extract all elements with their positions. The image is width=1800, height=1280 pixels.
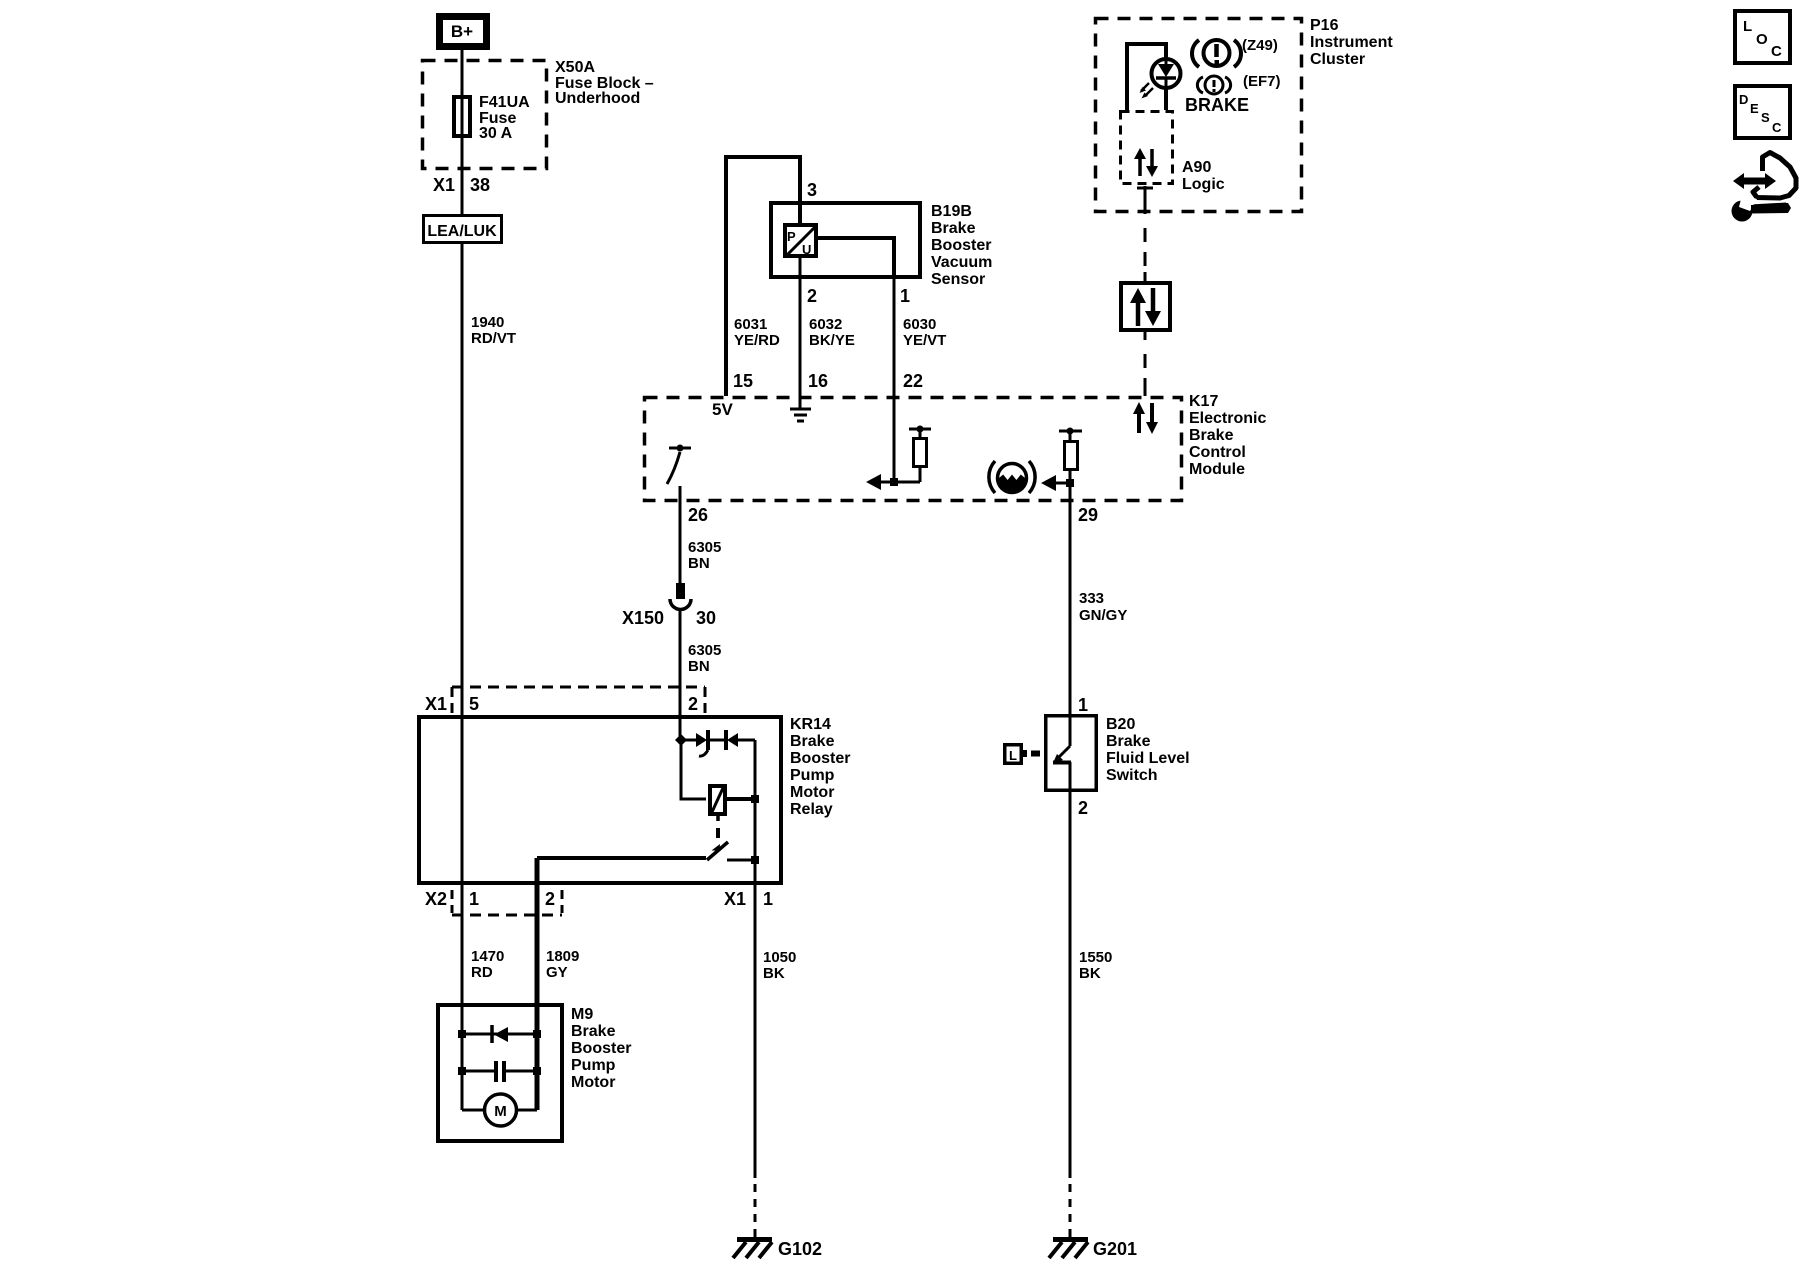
- wire label 6032 BK/YE: [809, 316, 855, 349]
- svg-text:Brake: Brake: [1106, 733, 1151, 750]
- label F41UA Fuse 30 A: [479, 94, 530, 142]
- A90 logic arrows: [1134, 148, 1158, 177]
- svg-text:15: 15: [733, 371, 753, 391]
- relay switch lever: [707, 842, 728, 860]
- svg-text:2: 2: [545, 889, 555, 909]
- wire label 6305 BN (upper): [688, 539, 721, 572]
- svg-text:16: 16: [808, 371, 828, 391]
- svg-text:Control: Control: [1189, 444, 1246, 461]
- svg-text:X1: X1: [724, 889, 746, 909]
- wire fuse to LEA/LUK: [461, 139, 464, 215]
- svg-text:Booster: Booster: [571, 1040, 631, 1057]
- svg-text:X1: X1: [425, 694, 447, 714]
- B20 switch lever: [1053, 746, 1071, 763]
- svg-text:5: 5: [469, 694, 479, 714]
- svg-text:1: 1: [763, 889, 773, 909]
- connector row X1 above KR14: [452, 687, 705, 713]
- svg-text:Fluid Level: Fluid Level: [1106, 750, 1190, 767]
- DESC icon: [1735, 86, 1790, 138]
- label B20 Brake Fluid Level Switch: [1106, 716, 1190, 784]
- svg-text:BRAKE: BRAKE: [1185, 95, 1249, 115]
- svg-text:Brake: Brake: [571, 1023, 616, 1040]
- svg-text:333: 333: [1079, 590, 1104, 607]
- wire 1050 BK to ground: [754, 885, 757, 1178]
- svg-text:B20: B20: [1106, 716, 1135, 733]
- wire through fuse: [461, 95, 464, 139]
- label X50A Fuse Block Underhood: [555, 59, 654, 107]
- svg-text:X1: X1: [433, 175, 455, 195]
- svg-text:O: O: [1756, 31, 1768, 48]
- svg-text:Brake: Brake: [931, 220, 976, 237]
- inline connector X150: [670, 583, 691, 610]
- internal pull-up resistor pin 22: [866, 396, 931, 490]
- relay switch contacts: [537, 856, 706, 860]
- svg-text:E: E: [1750, 101, 1759, 116]
- svg-text:D: D: [1739, 92, 1748, 107]
- sensor B19B box: [771, 203, 920, 277]
- wire B+ to fuse block: [461, 50, 464, 95]
- connector LEA/LUK: [424, 216, 502, 243]
- svg-text:2: 2: [807, 286, 817, 306]
- wire 333 GN/GY: [1069, 502, 1072, 746]
- wire sensor pin 3: [798, 155, 802, 223]
- wire label 6030 YE/VT: [903, 316, 946, 349]
- svg-text:Cluster: Cluster: [1310, 51, 1365, 68]
- svg-text:YE/RD: YE/RD: [734, 332, 780, 349]
- svg-text:RD/VT: RD/VT: [471, 330, 516, 347]
- serial data link symbol box: [1121, 283, 1170, 330]
- battery feed B+: [440, 17, 487, 47]
- switch B20 box: [1046, 716, 1097, 791]
- label B19B Brake Booster Vacuum Sensor: [931, 203, 992, 288]
- svg-text:26: 26: [688, 505, 708, 525]
- svg-text:GY: GY: [546, 964, 568, 981]
- svg-text:29: 29: [1078, 505, 1098, 525]
- svg-text:U: U: [802, 242, 811, 257]
- svg-text:Pump: Pump: [571, 1057, 616, 1074]
- relay actuator dashed link: [716, 816, 720, 821]
- wire label 1809 GY: [546, 948, 579, 981]
- connector pins X1 38: [433, 175, 490, 195]
- internal serial data arrows K17: [1133, 402, 1158, 434]
- svg-text:Motor: Motor: [571, 1074, 615, 1091]
- motor M9 box: [438, 1005, 562, 1141]
- svg-text:1: 1: [469, 889, 479, 909]
- svg-text:Vacuum: Vacuum: [931, 254, 992, 271]
- label M9 Brake Booster Pump Motor: [571, 1006, 631, 1091]
- svg-text:1470: 1470: [471, 948, 504, 965]
- svg-text:Switch: Switch: [1106, 767, 1158, 784]
- svg-text:1550: 1550: [1079, 949, 1112, 966]
- A90 logic dashed box: [1121, 112, 1173, 184]
- svg-text:LEA/LUK: LEA/LUK: [427, 223, 497, 240]
- svg-text:M: M: [494, 1103, 507, 1120]
- svg-text:L: L: [1009, 748, 1017, 763]
- wire pin 26: [679, 486, 682, 583]
- serial data wire to K17: [1144, 330, 1147, 396]
- svg-text:6305: 6305: [688, 642, 721, 659]
- svg-text:Logic: Logic: [1182, 176, 1225, 193]
- svg-text:P: P: [787, 229, 796, 244]
- junction coil/common: [751, 795, 759, 803]
- svg-text:5V: 5V: [712, 400, 733, 419]
- ground G102: [733, 1230, 772, 1258]
- fluid level sensor L tag: [1005, 745, 1040, 764]
- wire 1550 dashed to ground: [1069, 1184, 1072, 1232]
- svg-text:BK: BK: [763, 965, 785, 982]
- serial data wire from cluster: [1137, 186, 1153, 283]
- label K17 Electronic Brake Control Module: [1189, 393, 1266, 478]
- svg-text:G102: G102: [778, 1239, 822, 1259]
- svg-text:Booster: Booster: [790, 750, 850, 767]
- svg-text:6032: 6032: [809, 316, 842, 333]
- svg-text:1809: 1809: [546, 948, 579, 965]
- svg-text:Electronic: Electronic: [1189, 410, 1266, 427]
- relay coil: [710, 786, 725, 814]
- svg-text:L: L: [1743, 18, 1752, 35]
- connector row X2 below KR14: [452, 890, 562, 915]
- brake indicator lamp LED: [1140, 59, 1181, 99]
- internal switch (pin 26 driver): [667, 445, 691, 485]
- wire 1940 RD/VT: [461, 243, 464, 717]
- svg-text:1: 1: [1078, 695, 1088, 715]
- motor armature M: [462, 1094, 537, 1126]
- wire label 1550 BK: [1079, 949, 1112, 982]
- motor suppression diode: [458, 1025, 541, 1043]
- svg-text:BN: BN: [688, 658, 710, 675]
- K17 pin labels 15 16 22: [733, 371, 923, 391]
- svg-text:2: 2: [688, 694, 698, 714]
- svg-text:Underhood: Underhood: [555, 90, 640, 107]
- svg-text:1: 1: [900, 286, 910, 306]
- svg-text:Relay: Relay: [790, 801, 833, 818]
- brake lamp wires: [1127, 44, 1166, 110]
- svg-text:KR14: KR14: [790, 716, 831, 733]
- svg-text:Booster: Booster: [931, 237, 991, 254]
- wire label 6031 YE/RD: [734, 316, 780, 349]
- ground G201: [1049, 1230, 1088, 1258]
- svg-text:YE/VT: YE/VT: [903, 332, 946, 349]
- wire 6031 sensor 5V supply: [726, 157, 800, 396]
- svg-text:Pump: Pump: [790, 767, 835, 784]
- coil to common wire: [727, 797, 755, 801]
- wire sensor output (6030): [816, 238, 894, 279]
- label A90 Logic: [1182, 159, 1225, 193]
- internal brake-fluid telltale symbol: [989, 461, 1035, 493]
- wire through KR14 pin5 to M9 (1470 RD): [461, 717, 464, 1110]
- svg-text:C: C: [1772, 120, 1782, 135]
- svg-text:1050: 1050: [763, 949, 796, 966]
- pressure sensor element P/U: [785, 225, 816, 257]
- telltale (EF7) symbol: [1197, 76, 1230, 94]
- svg-text:Brake: Brake: [1189, 427, 1234, 444]
- telltale (Z49) symbol: [1192, 40, 1241, 67]
- svg-text:P16: P16: [1310, 17, 1339, 34]
- svg-text:22: 22: [903, 371, 923, 391]
- fuse F41UA: [454, 97, 470, 136]
- LOC icon: [1735, 11, 1790, 63]
- fuse block X50A dashed box: [423, 61, 547, 169]
- svg-text:X50A: X50A: [555, 59, 595, 76]
- svg-text:(Z49): (Z49): [1242, 37, 1278, 54]
- svg-text:BK: BK: [1079, 965, 1101, 982]
- svg-text:2: 2: [1078, 798, 1088, 818]
- svg-text:X150: X150: [622, 608, 664, 628]
- svg-text:BK/YE: BK/YE: [809, 332, 855, 349]
- wire 6305 BN (lower): [679, 610, 682, 740]
- motor suppression capacitor: [458, 1061, 541, 1082]
- svg-text:6030: 6030: [903, 316, 936, 333]
- svg-text:30: 30: [696, 608, 716, 628]
- wire sensor pin 2 (6032): [799, 258, 802, 396]
- svg-text:30 A: 30 A: [479, 125, 513, 142]
- B20 pin 2 wire: [1069, 762, 1072, 1178]
- svg-text:38: 38: [470, 175, 490, 195]
- label P16 Instrument Cluster: [1310, 17, 1393, 68]
- svg-text:Motor: Motor: [790, 784, 834, 801]
- svg-text:1940: 1940: [471, 314, 504, 331]
- navigation icon (double arrow, outline, wrench): [1732, 153, 1797, 222]
- svg-text:6305: 6305: [688, 539, 721, 556]
- internal resistor + arrow pin 29: [1041, 428, 1082, 503]
- svg-text:K17: K17: [1189, 393, 1218, 410]
- svg-text:6031: 6031: [734, 316, 767, 333]
- relay suppression diodes: [675, 730, 755, 756]
- svg-text:A90: A90: [1182, 159, 1211, 176]
- wire 1809 inside relay: [535, 858, 540, 1110]
- svg-text:X2: X2: [425, 889, 447, 909]
- svg-text:B+: B+: [451, 22, 473, 41]
- svg-text:B19B: B19B: [931, 203, 972, 220]
- wire label 1470 RD: [471, 948, 504, 981]
- svg-text:Instrument: Instrument: [1310, 34, 1393, 51]
- svg-text:Sensor: Sensor: [931, 271, 985, 288]
- internal ground pin 16: [790, 396, 811, 421]
- K17 ECM dashed box: [645, 398, 1182, 501]
- svg-text:F41UA: F41UA: [479, 94, 530, 111]
- svg-text:Module: Module: [1189, 461, 1245, 478]
- svg-text:BN: BN: [688, 555, 710, 572]
- svg-text:Brake: Brake: [790, 733, 835, 750]
- relay branch wires: [681, 744, 706, 799]
- svg-text:G201: G201: [1093, 1239, 1137, 1259]
- svg-text:RD: RD: [471, 964, 493, 981]
- wire label 1050 BK: [763, 949, 796, 982]
- P16 instrument cluster dashed box: [1096, 19, 1302, 212]
- svg-text:3: 3: [807, 180, 817, 200]
- svg-text:S: S: [1761, 110, 1770, 125]
- relay KR14 box: [419, 717, 781, 883]
- svg-text:GN/GY: GN/GY: [1079, 607, 1127, 624]
- svg-text:M9: M9: [571, 1006, 593, 1023]
- svg-text:(EF7): (EF7): [1243, 73, 1281, 90]
- svg-text:C: C: [1771, 43, 1782, 60]
- label KR14 Brake Booster Pump Motor Relay: [790, 716, 850, 818]
